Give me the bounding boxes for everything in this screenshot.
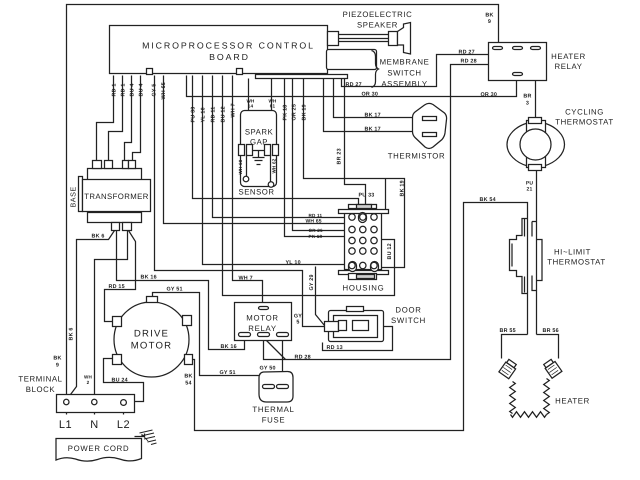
svg-text:L2: L2: [117, 419, 130, 431]
svg-text:BK 19: BK 19: [400, 180, 406, 196]
svg-text:RD 11: RD 11: [211, 107, 217, 123]
labels PU33 YL10 RD11 BU12 WH7 rotated near board: [191, 103, 237, 122]
spark gap with sensor: [239, 111, 279, 188]
wire WH 61 board to spark gap: [271, 79, 273, 111]
svg-text:RD 27: RD 27: [346, 82, 362, 88]
svg-text:BLOCK: BLOCK: [26, 385, 56, 394]
svg-text:PU 33: PU 33: [191, 107, 197, 123]
labels PK18 OR25 BK19 rotated near board: [283, 104, 308, 121]
label BK 16 lower: [221, 344, 237, 350]
svg-text:WH 65: WH 65: [306, 219, 322, 225]
svg-text:L1: L1: [59, 419, 72, 431]
membrane connector bar: [256, 75, 348, 79]
terminal block TB1: [57, 395, 135, 413]
label BK 54 right: [480, 197, 496, 203]
label HEATER: [555, 397, 590, 406]
wire BK 54 motor to hi-limit: [193, 203, 528, 431]
svg-text:BR 55: BR 55: [500, 328, 516, 334]
wire RD 1 (b) board to transformer pin2: [109, 76, 123, 161]
label BK 9 bottom left: [53, 356, 61, 369]
svg-text:SPARK: SPARK: [245, 128, 274, 137]
wire BK 16 transformer/motor to motor relay: [117, 231, 245, 350]
thermistor: [413, 103, 447, 148]
svg-text:BK: BK: [53, 356, 61, 362]
label BU 12 at housing right rotated: [387, 243, 393, 259]
wire OR 30 board to heater relay bottom: [187, 76, 517, 97]
svg-text:BK 16: BK 16: [141, 275, 157, 281]
label MEMBRANE SWITCH ASSEMBLY: [380, 58, 430, 89]
label OR 26 at housing: [309, 228, 324, 233]
label BK 16 upper: [141, 275, 157, 281]
svg-text:TERMINAL: TERMINAL: [18, 375, 62, 384]
svg-text:RD 28: RD 28: [461, 59, 477, 65]
svg-text:54: 54: [185, 381, 191, 387]
svg-text:BK 16: BK 16: [221, 344, 237, 350]
svg-text:WH 60: WH 60: [238, 159, 243, 174]
door switch S1: [325, 307, 384, 342]
ground symbol: [135, 430, 157, 445]
svg-text:RD 15: RD 15: [109, 284, 125, 290]
terminal stub L1: [66, 405, 68, 415]
label THERMISTOR: [388, 152, 445, 161]
svg-text:N: N: [90, 419, 98, 431]
wire YL 10 board to housing bottom left: [203, 76, 349, 265]
label PK 18 at housing: [309, 234, 323, 239]
svg-text:HEATER: HEATER: [551, 52, 586, 61]
svg-text:OR 25: OR 25: [292, 104, 298, 121]
label BK 17 upper: [365, 113, 381, 119]
label BR 3: [523, 94, 531, 107]
svg-text:BU 4: BU 4: [139, 83, 145, 96]
svg-text:OR 30: OR 30: [362, 92, 379, 98]
label TERMINAL BLOCK: [18, 375, 62, 395]
svg-text:OR 26: OR 26: [309, 228, 324, 233]
svg-text:RELAY: RELAY: [248, 324, 277, 333]
svg-text:DRIVE: DRIVE: [134, 329, 169, 340]
wire RD 15 transformer to motor: [105, 231, 136, 322]
label BR 56: [543, 328, 559, 334]
label BK 19 at housing right rotated: [400, 180, 406, 196]
label BU 24: [112, 378, 128, 384]
svg-text:21: 21: [527, 187, 533, 193]
drive motor M1: [113, 297, 193, 378]
wire BU 4 (b) board to transformer pin4: [133, 76, 141, 161]
label THERMAL FUSE: [252, 405, 294, 425]
wire RD 28 motor relay to heater relay: [264, 51, 514, 360]
heater element with terminals: [499, 358, 562, 417]
label RD 27 lower: [346, 82, 362, 88]
svg-text:RELAY: RELAY: [555, 62, 583, 71]
wire BU 4 (a) board to transformer pin3: [125, 76, 132, 161]
svg-text:PK 18: PK 18: [283, 105, 289, 121]
wire BK 6 transformer to terminal L1: [68, 231, 115, 399]
microprocessor control board U1: [110, 26, 328, 75]
label BK 9 top: [485, 13, 493, 26]
label PU 21: [526, 181, 534, 193]
svg-text:MOTOR: MOTOR: [246, 314, 278, 323]
labels WH 60 / WH 62 rotated: [238, 158, 277, 174]
label HOUSING: [343, 284, 385, 293]
svg-text:BU 12: BU 12: [387, 243, 393, 259]
label RD 11 at housing: [309, 213, 323, 218]
wire PK 18 membrane to housing: [285, 79, 345, 237]
labels L1 N L2: [59, 419, 130, 431]
labels WH14 WH61: [246, 99, 277, 109]
wire WH 65 board to housing: [164, 76, 345, 224]
wire BU 12 board to housing right: [223, 76, 395, 296]
svg-text:FUSE: FUSE: [262, 416, 286, 425]
svg-text:SENSOR: SENSOR: [239, 188, 275, 197]
svg-text:BR 56: BR 56: [543, 328, 559, 334]
terminal stub L2: [123, 406, 125, 415]
svg-text:BASE: BASE: [69, 186, 78, 207]
label GY 29 rotated: [309, 274, 315, 290]
label BR 55: [500, 328, 516, 334]
svg-text:PIEZOELECTRIC: PIEZOELECTRIC: [343, 10, 413, 19]
svg-text:RD 11: RD 11: [309, 213, 323, 218]
wire RD 13 door switch loop: [323, 327, 393, 351]
wire PU 33 board to housing top: [193, 76, 359, 209]
svg-text:WH 7: WH 7: [239, 276, 253, 282]
svg-text:MOTOR: MOTOR: [131, 341, 173, 352]
svg-text:THERMOSTAT: THERMOSTAT: [547, 258, 606, 267]
svg-text:DOOR: DOOR: [395, 306, 421, 315]
svg-text:GY 50: GY 50: [260, 366, 276, 372]
svg-text:SWITCH: SWITCH: [391, 316, 426, 325]
wire RD 1 (a) board to transformer pin1: [97, 76, 114, 161]
label CYCLING THERMOSTAT: [555, 108, 614, 127]
svg-text:WH: WH: [84, 375, 93, 380]
svg-text:HEATER: HEATER: [555, 397, 590, 406]
motor relay K2: [235, 303, 292, 341]
svg-text:THERMOSTAT: THERMOSTAT: [555, 118, 614, 127]
wire BR 23 membrane to housing top: [345, 79, 366, 209]
svg-text:RD 27: RD 27: [459, 50, 475, 56]
wire BU 24 motor to terminal L2: [104, 359, 144, 402]
svg-text:YL 10: YL 10: [201, 107, 207, 122]
wire WH 14 board to spark gap: [248, 79, 250, 111]
label RD 28 upper: [461, 59, 477, 65]
label HEATER RELAY: [551, 52, 586, 71]
svg-text:BK 6: BK 6: [69, 327, 75, 340]
wire BK 17 lower membrane to thermistor: [324, 79, 423, 132]
label BK 17 lower: [365, 127, 381, 133]
housing connector J1: [339, 205, 389, 280]
svg-text:RD 1: RD 1: [112, 83, 118, 96]
svg-text:3: 3: [526, 101, 529, 107]
label BASE rotated: [69, 186, 78, 207]
svg-text:RD 13: RD 13: [327, 345, 343, 351]
svg-text:BK 19: BK 19: [302, 104, 308, 120]
svg-text:ASSEMBLY: ASSEMBLY: [381, 80, 427, 89]
wire BR 3 heater relay to cycling thermostat: [535, 49, 537, 118]
svg-text:5: 5: [296, 320, 299, 326]
label BK 6: [92, 234, 105, 240]
svg-text:MICROPROCESSOR CONTROL: MICROPROCESSOR CONTROL: [142, 41, 315, 51]
svg-text:BK: BK: [485, 13, 493, 19]
wire RD 11 board to housing left: [213, 76, 345, 218]
wire BR 56 hi-limit to heater right: [537, 335, 559, 359]
svg-text:THERMAL: THERMAL: [252, 405, 294, 414]
svg-text:PU 33: PU 33: [359, 193, 375, 199]
label GY 51 upper: [167, 287, 183, 293]
svg-text:BOARD: BOARD: [209, 52, 250, 62]
label RD 15: [109, 284, 125, 290]
membrane switch assembly brace: [372, 51, 379, 88]
svg-text:BK 17: BK 17: [365, 113, 381, 119]
svg-text:WH 62: WH 62: [272, 158, 277, 173]
wire PU 21 cycling to hi-limit: [536, 171, 538, 335]
svg-text:PK 18: PK 18: [309, 234, 323, 239]
svg-text:BU 12: BU 12: [221, 106, 227, 122]
svg-text:POWER CORD: POWER CORD: [68, 444, 130, 453]
wire GY 29 housing to door switch: [316, 267, 325, 326]
wire BK 17 upper membrane to thermistor: [334, 79, 423, 118]
label RD 27 upper: [459, 50, 475, 56]
label PU 33 at housing: [359, 193, 375, 199]
thermal fuse F1: [259, 372, 293, 403]
label GY 50: [260, 366, 276, 372]
wire RD 27 membrane to heater relay: [342, 49, 514, 87]
transformer T1: [79, 161, 151, 231]
piezoelectric speaker: [328, 23, 411, 55]
cycling thermostat: [507, 118, 565, 171]
svg-text:MEMBRANE: MEMBRANE: [380, 58, 430, 67]
wire WH 2 transformer to terminal N: [95, 231, 128, 400]
svg-text:BU 4: BU 4: [130, 83, 136, 96]
svg-text:BU 24: BU 24: [112, 378, 128, 384]
membrane switch assembly box: [327, 50, 377, 70]
svg-text:BK 17: BK 17: [365, 127, 381, 133]
label PIEZOELECTRIC SPEAKER: [343, 10, 413, 30]
svg-text:BK 54: BK 54: [480, 197, 496, 203]
label RD 13: [327, 345, 343, 351]
wire GY 5 board to door switch connector: [155, 76, 325, 327]
wire BK 9 loop: heater relay to terminal L1: [67, 5, 499, 400]
label WH 7 at motor relay: [239, 276, 253, 282]
svg-text:HOUSING: HOUSING: [343, 284, 385, 293]
svg-text:HI~LIMIT: HI~LIMIT: [554, 248, 591, 257]
svg-text:GY 51: GY 51: [220, 370, 236, 376]
svg-text:2: 2: [87, 380, 90, 385]
svg-text:BK 6: BK 6: [92, 234, 105, 240]
svg-text:9: 9: [56, 363, 59, 369]
label HI-LIMIT THERMOSTAT: [547, 248, 606, 267]
label SENSOR: [239, 188, 275, 197]
hi-limit thermostat: [510, 219, 543, 294]
power cord: [56, 439, 142, 462]
svg-text:BK: BK: [184, 374, 192, 380]
label BK 6 rotated bottom: [69, 327, 75, 340]
label GY 51 lower: [220, 370, 236, 376]
label BK 54 at motor: [184, 374, 192, 387]
label RD 28 lower: [295, 355, 311, 361]
svg-text:SPEAKER: SPEAKER: [357, 21, 398, 30]
svg-text:YL 10: YL 10: [286, 260, 301, 266]
svg-text:9: 9: [488, 19, 491, 25]
wire WH 7 board to motor relay: [233, 76, 263, 307]
label GY 5 at door switch: [294, 314, 302, 326]
svg-text:RD 28: RD 28: [295, 355, 311, 361]
wire OR 26 membrane to housing: [293, 79, 345, 231]
wire GY 51 motor to thermal fuse: [153, 293, 261, 376]
label BR 23 rotated: [337, 148, 343, 164]
wire GY 50 motor relay to thermal fuse: [282, 337, 284, 385]
label WH 65 at housing: [306, 219, 322, 225]
terminal stub N: [94, 405, 96, 415]
svg-text:TRANSFORMER: TRANSFORMER: [84, 192, 149, 201]
svg-text:61: 61: [270, 104, 276, 109]
svg-text:RD 1: RD 1: [121, 83, 127, 96]
svg-text:SWITCH: SWITCH: [387, 69, 421, 78]
svg-text:GY 51: GY 51: [167, 287, 183, 293]
wire BR 55 hi-limit to heater left: [502, 335, 528, 359]
heater relay K1: [489, 43, 547, 81]
wire BK 19 membrane around housing right: [304, 79, 405, 268]
label WH 2: [84, 375, 93, 386]
label DOOR SWITCH: [391, 306, 426, 326]
labels RD1 RD1 BU4 BU4 GY5 WH65 rotated: [112, 82, 168, 99]
label YL 10: [286, 260, 301, 266]
svg-text:WH 7: WH 7: [231, 103, 237, 117]
svg-text:14: 14: [248, 104, 254, 109]
svg-text:THERMISTOR: THERMISTOR: [388, 152, 445, 161]
svg-text:BR 23: BR 23: [337, 148, 343, 164]
svg-text:CYCLING: CYCLING: [565, 108, 604, 117]
label OR 30 right: [481, 92, 498, 98]
svg-text:BR: BR: [523, 94, 531, 100]
label OR 30 left: [362, 92, 379, 98]
svg-text:GY 29: GY 29: [309, 274, 315, 290]
extra diagonal from motor relay middle pill: [265, 339, 286, 360]
svg-text:OR 30: OR 30: [481, 92, 498, 98]
